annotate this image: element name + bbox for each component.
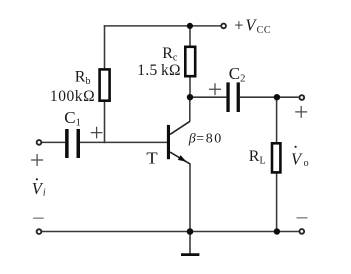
svg-text:Vo: Vo <box>291 149 309 169</box>
svg-text:C2: C2 <box>229 64 246 85</box>
svg-text:+VCC: +VCC <box>234 16 271 36</box>
svg-text:Rb: Rb <box>75 68 91 87</box>
svg-text:T: T <box>146 149 158 168</box>
svg-text:=80: =80 <box>196 132 222 147</box>
svg-text:Rc: Rc <box>162 45 178 64</box>
svg-text:Vi: Vi <box>32 179 46 199</box>
svg-text:RL: RL <box>249 148 266 167</box>
svg-text:β: β <box>188 132 196 147</box>
svg-text:100kΩ: 100kΩ <box>50 88 95 105</box>
svg-text:1.5 kΩ: 1.5 kΩ <box>137 62 181 79</box>
svg-text:C1: C1 <box>64 108 81 129</box>
